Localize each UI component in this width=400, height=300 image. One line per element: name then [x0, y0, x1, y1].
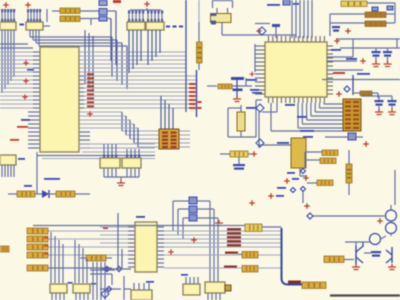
ground of Q4 — [388, 264, 396, 270]
parts left of U2 top — [255, 23, 270, 25]
resistor R11 — [317, 180, 333, 186]
wire vertical right — [352, 75, 354, 95]
net labels left of U1 — [23, 60, 28, 65]
power flag P3 — [144, 1, 150, 7]
wires at R27 — [348, 150, 350, 164]
long vertical wire at x=186 — [185, 0, 187, 112]
pins below J3 — [75, 293, 77, 300]
capacitor C5 top plate — [231, 77, 244, 80]
header H1 — [343, 99, 361, 131]
net labels at bus right end — [189, 83, 196, 85]
power flag P12 — [168, 249, 174, 255]
power flag P6 — [336, 91, 342, 97]
resistor R18 — [27, 265, 48, 271]
label near Y1 — [246, 107, 256, 109]
labels above diode row — [44, 178, 60, 180]
wires below U2 to header — [297, 103, 299, 128]
sheet border line — [330, 294, 400, 296]
diamond D3 — [301, 169, 306, 174]
power flag P17 — [250, 72, 255, 77]
component X2 — [245, 224, 262, 232]
resistor R10 — [320, 158, 336, 164]
ground G2 — [215, 220, 223, 226]
labels at resistor stack — [44, 237, 48, 239]
power flag P7 — [251, 151, 257, 157]
wires from RP2 to right (staircase) — [29, 30, 31, 37]
wire at R18 — [48, 267, 112, 269]
resistor network RP2 — [26, 22, 43, 30]
wire rail above RP3 RP4 — [130, 9, 161, 11]
pins below J2 — [51, 293, 53, 300]
IC U3 right pin wires — [157, 226, 164, 228]
IC U3 left pin wires — [128, 226, 135, 228]
wire at C9 — [364, 252, 371, 254]
resistor R20 — [86, 255, 106, 261]
power flag P10 — [304, 203, 310, 209]
IC U2 body — [265, 42, 327, 97]
long wire below U2 — [258, 112, 260, 148]
resistor network RP4 — [146, 22, 164, 30]
resistor R9 — [322, 150, 338, 156]
connector U4 — [205, 282, 225, 293]
wires below RP3 — [128, 30, 130, 73]
wires at JP1 — [107, 10, 116, 12]
ground of C6 — [375, 109, 383, 115]
diamond D4 — [301, 187, 306, 192]
wires IC U1 right pins and buses — [79, 51, 186, 53]
power flag P11 — [191, 237, 197, 243]
wires at R3 R4 R5 — [330, 13, 365, 15]
IC U2 top pin stubs — [268, 36, 270, 42]
label at J3 — [91, 283, 96, 285]
power flag P1 — [3, 2, 9, 8]
link between RP1 RP2 — [20, 24, 25, 26]
wire at R21 — [238, 254, 242, 256]
connector J2 — [50, 284, 67, 293]
wires at crystal circuit — [207, 85, 217, 87]
wires below CN1 — [1, 165, 3, 177]
resistor R24 — [324, 256, 344, 263]
resistor R23 — [302, 282, 326, 289]
resistor R27 vertical — [346, 164, 352, 183]
resistor R21 — [242, 252, 258, 259]
labels below header — [300, 130, 314, 132]
wire to U4 area — [100, 288, 121, 290]
label LB1 — [372, 7, 378, 11]
wire bundle above RP1 — [1, 9, 3, 22]
jumper block JP4 — [189, 215, 197, 222]
label right of CN1 — [18, 158, 25, 160]
component X1 — [211, 14, 232, 23]
diamond below U2 — [256, 104, 264, 112]
label above J5 — [181, 274, 188, 276]
resistor network RP6 — [122, 158, 141, 168]
diamond D8 — [106, 286, 111, 291]
power flag P13 — [334, 38, 340, 44]
header H2 — [159, 129, 179, 149]
diamond D9 — [101, 290, 109, 298]
capacitor C5 lead — [236, 80, 238, 97]
label of R22 — [224, 266, 237, 268]
ground of C2 — [372, 61, 380, 67]
label mid below U2 — [297, 116, 307, 118]
wires IC U1 left pins — [0, 51, 40, 53]
wire below U1 — [36, 152, 38, 194]
wire vertical at bus end — [196, 70, 198, 117]
connector J5 — [183, 284, 200, 295]
jumper JP1 bottom — [99, 17, 107, 22]
resistor network RP1 — [0, 22, 16, 30]
wire U2 bottom mid — [276, 103, 278, 112]
resistor R7 — [360, 91, 372, 96]
jumper JP1 top — [99, 1, 107, 6]
net label on thick bus — [288, 281, 301, 284]
dashed wire RP4 to vertical — [166, 26, 184, 28]
label below U2 a — [277, 142, 289, 144]
wires above RP3 — [128, 10, 130, 22]
crystal loop wires — [240, 105, 242, 112]
wires at Q5 — [312, 215, 386, 217]
resistor R1 top — [60, 8, 80, 14]
wires above RP4 — [147, 10, 149, 22]
wire above R25 — [198, 0, 200, 22]
diode D5 — [42, 190, 49, 198]
label right of U2 — [331, 49, 341, 51]
wires below RP4 — [147, 30, 149, 65]
wires above J4 — [133, 283, 135, 290]
diamond D10 — [307, 213, 313, 219]
pin number labels U1 right — [87, 73, 94, 75]
stub right of U4 — [225, 285, 231, 291]
resistor R3 — [341, 1, 367, 7]
long verticals left of U3 — [117, 213, 119, 269]
power flag P2 — [25, 2, 31, 8]
resistor R2 top — [60, 16, 80, 22]
component D2 — [348, 133, 356, 140]
net label red at U3 — [103, 227, 108, 229]
label RST — [346, 58, 357, 60]
crystal Y1 — [237, 112, 245, 131]
wires at R7 — [353, 92, 360, 94]
label near C5 — [250, 89, 259, 91]
resistor network RP3 — [127, 22, 145, 30]
power flag P15 — [377, 218, 383, 224]
IC U2 bottom pin stubs — [268, 97, 270, 103]
label above U3 — [136, 216, 145, 218]
ground of C5 — [233, 96, 241, 102]
net label marks on vertical wire — [198, 101, 202, 103]
resistor R17 — [27, 252, 48, 258]
label LB2 — [387, 6, 393, 10]
wire at D2 — [325, 136, 348, 138]
IC U1 body — [40, 47, 79, 152]
pull-up loop wires — [213, 0, 233, 2]
pin labels left of U2 — [254, 44, 256, 72]
transistor Q4 — [391, 247, 393, 263]
capacitor C7 — [388, 100, 397, 102]
diamond D7 — [116, 266, 121, 271]
ground of D2 — [363, 141, 369, 147]
wires below RP5 RP6 — [103, 168, 105, 177]
labels top right of X1 — [267, 4, 280, 6]
wire into Q3 — [345, 241, 370, 243]
resistor R19 — [0, 246, 9, 252]
net label on thick bus 2 — [282, 281, 284, 283]
capacitor C3 — [387, 48, 389, 51]
diode D5 row wire — [8, 193, 17, 195]
transistor Q3 circle — [370, 234, 381, 245]
ground of C7 — [388, 109, 396, 115]
connector J4 — [131, 290, 152, 300]
wires into header H2 top — [160, 96, 162, 129]
capacitor C5 bottom plate — [233, 89, 243, 92]
resistor R5 — [365, 21, 386, 27]
wires at R9 R10 — [305, 151, 322, 153]
wires at jumper blocks left — [173, 200, 189, 202]
resistor R16 — [27, 244, 48, 250]
connector J3 — [73, 284, 90, 293]
resistor R8 — [230, 151, 248, 157]
capacitor C9 — [371, 251, 381, 253]
capacitor C6 — [375, 100, 384, 102]
wires below RN — [299, 168, 301, 176]
wires at jumper blocks right — [197, 200, 210, 202]
wires crossing above RP5 RP6 — [79, 143, 155, 145]
capacitor C4 — [332, 26, 340, 28]
label below U2 b — [285, 104, 295, 106]
label above JP1 — [113, 0, 121, 3]
wires right of U2 — [336, 38, 400, 40]
resistor R4 — [365, 12, 386, 18]
wires above J5 — [185, 277, 187, 284]
resistor R15 — [27, 236, 48, 242]
IC U2 left pin stubs — [259, 45, 265, 47]
ground of Q1 — [352, 264, 360, 270]
power flag P8 — [249, 200, 255, 206]
power flag P9 — [303, 175, 309, 181]
transistor Q1 — [355, 246, 357, 264]
IC U3 body — [135, 222, 157, 272]
wire bundle below RP1 — [1, 30, 3, 93]
net label maroon — [333, 72, 345, 74]
ground G1 — [117, 180, 125, 186]
wire at R22 — [100, 268, 131, 270]
component RN vertical — [291, 138, 306, 168]
resistor network RP5 — [100, 158, 120, 168]
resistor R22 — [242, 266, 258, 273]
diamond D6 — [104, 266, 109, 271]
bus wire labels — [227, 228, 241, 230]
transistor Q5 circle — [386, 210, 397, 221]
wire at R20 — [80, 257, 86, 259]
capacitor C8 — [233, 164, 245, 166]
IC U2 right pin stubs — [327, 45, 333, 47]
small parts cluster right — [287, 172, 295, 174]
wires above U2 — [291, 0, 293, 38]
wires upper left of U1 — [0, 43, 28, 45]
wire stub right of RP2 — [43, 25, 50, 27]
label of R21 — [225, 252, 238, 254]
resistor R6 — [218, 84, 232, 89]
wires right of R20 — [92, 262, 94, 300]
jumper JP1 mid — [99, 9, 107, 16]
ground of C3 — [384, 61, 392, 67]
wire right of header — [361, 95, 392, 97]
jumper block JP2 — [189, 197, 197, 204]
label at J2 — [68, 282, 73, 284]
wire at R11 — [307, 182, 317, 184]
wire down cluster — [302, 192, 304, 203]
wires down to U4 — [209, 201, 211, 283]
diamond D1 — [344, 86, 350, 92]
resistor R13 — [56, 191, 75, 197]
transistor Q2 circle — [386, 223, 397, 234]
resistor R12 — [17, 191, 35, 197]
bus wire thick down — [282, 228, 303, 285]
wire bundle above RP2 — [27, 9, 29, 22]
wires at R1 R2 — [52, 10, 60, 12]
resistor R25 vertical — [197, 42, 203, 63]
resistor R14 — [27, 228, 48, 234]
power flag P5 — [345, 28, 351, 34]
connector CN1 — [0, 155, 16, 165]
wire Q2 Q3 — [381, 236, 387, 239]
net label blue — [357, 73, 370, 75]
power flag P16 — [87, 111, 93, 117]
wires at R8 — [220, 153, 230, 155]
wires at X1 — [221, 23, 223, 36]
long wire to X2 — [33, 225, 245, 227]
label below U3 body — [146, 281, 154, 283]
power flag P14 — [360, 58, 366, 64]
pins below U4 — [207, 293, 209, 300]
vertical wires to bottom connectors — [50, 232, 52, 283]
capacitor C2 — [375, 48, 377, 51]
diamond D11 — [256, 139, 264, 147]
wires above RP5 RP6 — [103, 144, 105, 158]
jumper block JP3 — [189, 206, 197, 213]
wires right of header H2 — [179, 130, 190, 132]
wire R24 to Q1 — [344, 259, 354, 261]
